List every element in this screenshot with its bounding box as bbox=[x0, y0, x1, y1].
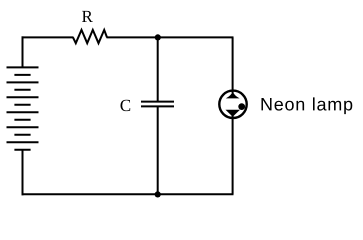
wire top rail right segment bbox=[107, 36, 234, 38]
capacitor C bbox=[141, 102, 174, 107]
node junction top bbox=[155, 34, 161, 40]
wire top rail left segment bbox=[22, 36, 74, 38]
label C bbox=[121, 100, 131, 111]
wire right rail lower bbox=[232, 115, 234, 194]
resistor R bbox=[73, 30, 107, 43]
wire left rail (battery top lead) bbox=[22, 36, 24, 67]
wire middle rail lower bbox=[157, 106, 159, 194]
wire battery bottom lead bbox=[22, 150, 24, 196]
neon lamp bbox=[219, 91, 246, 118]
wire bottom rail bbox=[22, 193, 234, 195]
battery bbox=[7, 67, 39, 149]
wire right rail upper (to neon lamp) bbox=[232, 37, 234, 93]
label Neon lamp bbox=[261, 97, 352, 114]
wire middle rail upper (to capacitor) bbox=[157, 37, 159, 101]
label R bbox=[82, 11, 93, 22]
node junction bottom bbox=[155, 191, 161, 197]
